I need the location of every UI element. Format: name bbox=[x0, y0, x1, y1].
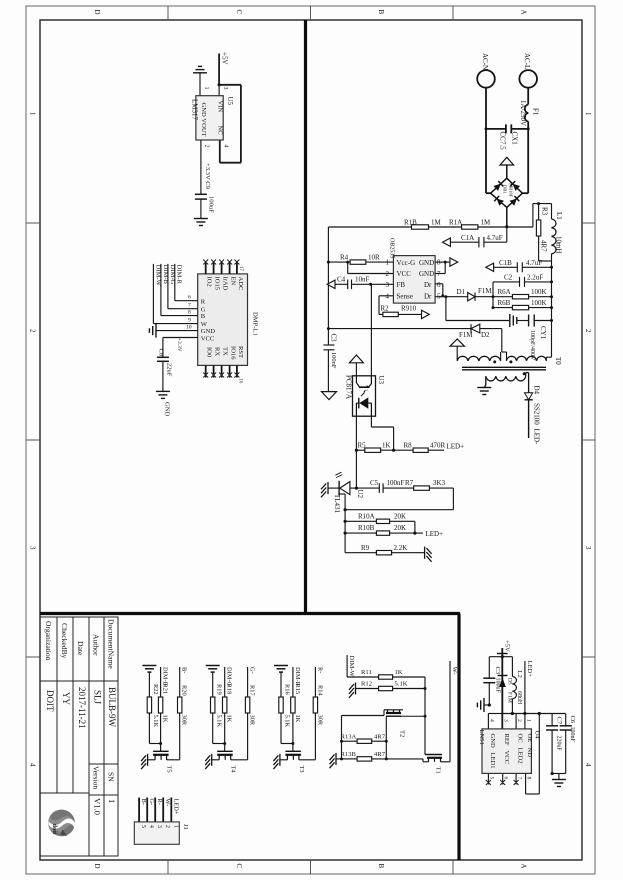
svg-text:U4: U4 bbox=[534, 731, 541, 740]
svg-text:TX: TX bbox=[222, 347, 229, 356]
svg-text:68uH: 68uH bbox=[516, 691, 522, 705]
svg-text:Version: Version bbox=[92, 766, 101, 789]
svg-text:4: 4 bbox=[488, 719, 494, 722]
svg-text:R10A: R10A bbox=[358, 512, 375, 520]
svg-text:4R7: 4R7 bbox=[374, 751, 386, 758]
svg-text:100K: 100K bbox=[531, 299, 547, 307]
svg-text:IO2: IO2 bbox=[206, 277, 213, 287]
svg-text:C3: C3 bbox=[494, 667, 501, 675]
svg-text:F1M: F1M bbox=[506, 692, 512, 703]
svg-text:W: W bbox=[201, 321, 208, 328]
svg-text:2: 2 bbox=[584, 329, 592, 333]
svg-text:4: 4 bbox=[386, 292, 390, 300]
svg-text:+5V: +5V bbox=[504, 640, 511, 652]
svg-text:LED+: LED+ bbox=[526, 661, 533, 678]
svg-text:R16: R16 bbox=[284, 684, 291, 695]
svg-text:Organization: Organization bbox=[44, 621, 53, 661]
svg-text:T1: T1 bbox=[434, 767, 441, 774]
svg-text:CY1: CY1 bbox=[539, 326, 547, 340]
svg-text:R18: R18 bbox=[226, 684, 233, 695]
svg-text:OE: OE bbox=[526, 734, 533, 743]
svg-text:D: D bbox=[93, 864, 101, 869]
svg-text:2.2uF: 2.2uF bbox=[527, 274, 543, 282]
svg-text:1: 1 bbox=[386, 259, 390, 267]
svg-text:3K3: 3K3 bbox=[433, 479, 446, 487]
svg-text:R22: R22 bbox=[152, 684, 159, 695]
svg-text:SN: SN bbox=[107, 772, 116, 782]
svg-text:GND VOUT: GND VOUT bbox=[200, 103, 207, 137]
svg-text:R21: R21 bbox=[162, 684, 169, 695]
svg-text:1K: 1K bbox=[226, 715, 233, 723]
svg-text:8: 8 bbox=[188, 310, 191, 316]
svg-text:B: B bbox=[201, 313, 206, 320]
svg-text:1: 1 bbox=[203, 87, 209, 90]
svg-text:Dr: Dr bbox=[424, 293, 432, 301]
svg-text:MB10F: MB10F bbox=[508, 183, 513, 198]
svg-text:LN51: LN51 bbox=[478, 730, 485, 745]
svg-text:GND: GND bbox=[419, 259, 434, 267]
svg-text:3: 3 bbox=[386, 281, 390, 289]
svg-text:5.1K: 5.1K bbox=[152, 715, 159, 728]
svg-text:VCC: VCC bbox=[201, 336, 215, 343]
svg-text:R9: R9 bbox=[361, 544, 370, 552]
svg-text:PC817A: PC817A bbox=[345, 375, 353, 399]
svg-text:1K: 1K bbox=[395, 669, 403, 676]
svg-text:SLJ: SLJ bbox=[93, 690, 103, 705]
svg-text:100nF: 100nF bbox=[387, 479, 405, 487]
svg-text:D4: D4 bbox=[532, 386, 540, 395]
svg-text:D2: D2 bbox=[481, 331, 490, 339]
svg-text:Date: Date bbox=[76, 641, 85, 656]
svg-text:GND: GND bbox=[489, 734, 496, 749]
svg-text:8: 8 bbox=[437, 259, 441, 267]
svg-text:2: 2 bbox=[204, 145, 210, 148]
svg-text:1A/250V: 1A/250V bbox=[519, 100, 527, 126]
svg-text:REF: REF bbox=[503, 734, 510, 746]
svg-text:Sense: Sense bbox=[397, 293, 413, 301]
svg-text:100uF: 100uF bbox=[494, 678, 500, 694]
svg-text:2.2K: 2.2K bbox=[394, 544, 408, 552]
svg-text:10R: 10R bbox=[368, 253, 380, 261]
svg-text:T3: T3 bbox=[298, 766, 305, 773]
svg-text:LED+: LED+ bbox=[426, 530, 444, 538]
svg-text:T5: T5 bbox=[166, 766, 173, 773]
svg-text:6: 6 bbox=[188, 295, 191, 301]
svg-text:2: 2 bbox=[29, 329, 37, 333]
svg-text:4R7: 4R7 bbox=[374, 733, 386, 740]
svg-text:C: C bbox=[235, 10, 243, 15]
svg-text:U2: U2 bbox=[356, 490, 364, 499]
svg-text:R14: R14 bbox=[316, 685, 323, 696]
svg-text:CX1: CX1 bbox=[510, 132, 518, 146]
svg-text:R20: R20 bbox=[181, 685, 188, 696]
svg-text:3: 3 bbox=[222, 87, 228, 90]
svg-text:8: 8 bbox=[526, 777, 532, 780]
svg-text:4: 4 bbox=[584, 763, 592, 767]
svg-text:OC: OC bbox=[517, 734, 524, 744]
svg-text:DIM-W: DIM-W bbox=[348, 656, 355, 678]
svg-text:doit: doit bbox=[51, 824, 58, 836]
svg-text:7: 7 bbox=[516, 777, 522, 780]
svg-text:4R7: 4R7 bbox=[540, 240, 548, 252]
svg-text:T4: T4 bbox=[230, 766, 237, 774]
svg-text:R2: R2 bbox=[381, 304, 390, 312]
svg-text:C: C bbox=[235, 864, 243, 869]
svg-text:4.7uF: 4.7uF bbox=[487, 234, 503, 242]
svg-text:TL431: TL431 bbox=[333, 494, 341, 514]
svg-text:RX: RX bbox=[214, 347, 221, 356]
svg-text:9: 9 bbox=[188, 318, 191, 324]
svg-text:1K: 1K bbox=[382, 441, 391, 449]
svg-text:5.1K: 5.1K bbox=[215, 715, 222, 728]
svg-text:1: 1 bbox=[172, 825, 178, 828]
svg-text:R15: R15 bbox=[294, 684, 301, 695]
svg-text:LM317: LM317 bbox=[190, 99, 198, 121]
svg-text:3: 3 bbox=[503, 719, 509, 722]
svg-text:U5: U5 bbox=[226, 97, 234, 106]
svg-text:FB: FB bbox=[397, 281, 406, 289]
svg-text:6: 6 bbox=[437, 281, 441, 289]
svg-text:470R: 470R bbox=[430, 441, 446, 449]
svg-text:6: 6 bbox=[503, 777, 509, 780]
svg-text:CheckedBy: CheckedBy bbox=[60, 623, 69, 659]
svg-text:LED+: LED+ bbox=[172, 799, 179, 815]
svg-text:1K: 1K bbox=[294, 715, 301, 723]
svg-text:1M: 1M bbox=[431, 219, 442, 227]
svg-text:DIM-W: DIM-W bbox=[154, 265, 161, 287]
svg-text:C1B: C1B bbox=[499, 259, 512, 267]
svg-text:1K: 1K bbox=[162, 715, 169, 723]
svg-text:C5: C5 bbox=[370, 479, 379, 487]
svg-text:1: 1 bbox=[107, 799, 117, 803]
svg-text:100nF: 100nF bbox=[330, 352, 337, 369]
svg-text:IO0: IO0 bbox=[206, 347, 213, 358]
svg-text:100K: 100K bbox=[531, 288, 547, 296]
svg-text:5: 5 bbox=[488, 777, 494, 780]
svg-text:+5V: +5V bbox=[221, 52, 229, 65]
svg-text:DIM-G: DIM-G bbox=[169, 265, 176, 285]
svg-text:5.1K: 5.1K bbox=[284, 715, 291, 728]
svg-text:C2: C2 bbox=[504, 274, 513, 282]
svg-text:R10B: R10B bbox=[358, 524, 375, 532]
svg-text:R-: R- bbox=[156, 799, 163, 805]
svg-text:AC-N: AC-N bbox=[481, 53, 489, 70]
svg-text:7: 7 bbox=[437, 270, 441, 278]
svg-text:NC: NC bbox=[216, 126, 223, 136]
svg-text:B-: B- bbox=[181, 667, 188, 673]
svg-text:R19: R19 bbox=[215, 684, 222, 695]
svg-text:J1: J1 bbox=[182, 824, 189, 830]
svg-text:DIM-B: DIM-B bbox=[162, 265, 169, 285]
svg-text:A: A bbox=[520, 10, 528, 15]
svg-text:7: 7 bbox=[188, 303, 191, 309]
svg-text:5.1K: 5.1K bbox=[395, 681, 408, 688]
svg-text:RST: RST bbox=[237, 346, 244, 358]
svg-text:1M: 1M bbox=[481, 219, 492, 227]
svg-text:2: 2 bbox=[386, 270, 390, 278]
svg-text:DOIT: DOIT bbox=[45, 690, 55, 712]
svg-text:DMP-L1: DMP-L1 bbox=[252, 312, 259, 336]
svg-text:B: B bbox=[377, 10, 385, 15]
svg-text:R1B: R1B bbox=[404, 219, 417, 227]
svg-text:R6B: R6B bbox=[498, 299, 511, 307]
svg-text:G-: G- bbox=[249, 667, 256, 674]
svg-text:C7: C7 bbox=[555, 717, 562, 725]
svg-text:4: 4 bbox=[148, 825, 154, 828]
svg-text:R3: R3 bbox=[541, 207, 549, 216]
svg-text:LED+: LED+ bbox=[447, 443, 465, 451]
svg-text:IO15: IO15 bbox=[214, 277, 221, 291]
svg-text:C6: C6 bbox=[569, 716, 576, 724]
svg-text:DB1: DB1 bbox=[503, 185, 508, 194]
svg-text:CC7.5: CC7.5 bbox=[499, 132, 507, 151]
svg-text:LED2: LED2 bbox=[517, 748, 524, 764]
svg-text:IO16: IO16 bbox=[230, 346, 237, 360]
svg-text:T2: T2 bbox=[399, 730, 406, 737]
svg-text:C1A: C1A bbox=[461, 234, 474, 242]
svg-text:30R: 30R bbox=[249, 715, 256, 726]
svg-text:3: 3 bbox=[156, 825, 162, 828]
svg-text:R1A: R1A bbox=[449, 219, 462, 227]
svg-text:1: 1 bbox=[584, 112, 592, 116]
svg-text:3: 3 bbox=[29, 546, 37, 550]
svg-text:C4: C4 bbox=[337, 276, 346, 284]
svg-text:SS2100: SS2100 bbox=[532, 403, 540, 425]
svg-text:30R: 30R bbox=[181, 715, 188, 726]
svg-text:2: 2 bbox=[516, 719, 522, 722]
svg-text:ADC: ADC bbox=[237, 277, 244, 292]
svg-text:DocumentName: DocumentName bbox=[107, 619, 116, 669]
svg-text:Author: Author bbox=[92, 634, 101, 656]
svg-text:D: D bbox=[93, 10, 101, 15]
svg-text:R11: R11 bbox=[361, 669, 372, 676]
svg-text:AC-L: AC-L bbox=[523, 53, 531, 69]
svg-text:4.7uF: 4.7uF bbox=[526, 259, 542, 267]
svg-text:16: 16 bbox=[238, 379, 243, 384]
svg-text:2017-11-21: 2017-11-21 bbox=[77, 687, 87, 729]
svg-text:Vcc-G: Vcc-G bbox=[397, 259, 416, 267]
svg-text:10nF: 10nF bbox=[355, 276, 370, 284]
svg-text:R-: R- bbox=[316, 667, 323, 673]
svg-text:BULB-9W: BULB-9W bbox=[107, 687, 117, 728]
svg-text:2: 2 bbox=[164, 825, 170, 828]
svg-text:R13B: R13B bbox=[341, 751, 357, 758]
svg-text:V1.0: V1.0 bbox=[92, 798, 102, 815]
svg-text:R910: R910 bbox=[401, 304, 417, 312]
svg-text:5: 5 bbox=[140, 825, 146, 828]
svg-text:10mH: 10mH bbox=[554, 236, 562, 254]
svg-text:1: 1 bbox=[29, 112, 37, 116]
svg-text:W-: W- bbox=[451, 667, 458, 675]
svg-text:D5: D5 bbox=[506, 678, 512, 685]
svg-text:4: 4 bbox=[29, 763, 37, 767]
svg-text:20K: 20K bbox=[394, 512, 406, 520]
svg-text:VCC: VCC bbox=[503, 751, 510, 765]
svg-text:B-: B- bbox=[140, 799, 147, 805]
svg-text:+3.3V: +3.3V bbox=[176, 338, 182, 352]
svg-text:+3.3V C9: +3.3V C9 bbox=[204, 163, 211, 190]
svg-text:3: 3 bbox=[584, 546, 592, 550]
svg-text:VCC: VCC bbox=[397, 270, 412, 278]
svg-text:G-: G- bbox=[148, 799, 155, 806]
svg-text:C8: C8 bbox=[157, 349, 164, 357]
svg-text:1: 1 bbox=[526, 719, 532, 722]
svg-text:100uF: 100uF bbox=[208, 196, 215, 213]
svg-text:10: 10 bbox=[186, 325, 192, 331]
svg-text:R17: R17 bbox=[249, 685, 256, 696]
svg-text:LED-: LED- bbox=[532, 429, 540, 446]
svg-text:C3: C3 bbox=[330, 334, 338, 343]
svg-text:30R: 30R bbox=[316, 715, 323, 726]
svg-text:F1: F1 bbox=[532, 108, 540, 116]
svg-text:220uF: 220uF bbox=[555, 736, 561, 752]
svg-text:OB2535: OB2535 bbox=[389, 238, 395, 258]
svg-text:R: R bbox=[201, 298, 206, 305]
svg-text:LED1: LED1 bbox=[489, 753, 496, 769]
svg-text:T0: T0 bbox=[554, 357, 562, 365]
svg-text:EN: EN bbox=[230, 277, 237, 286]
svg-text:R6A: R6A bbox=[498, 288, 511, 296]
svg-text:R7: R7 bbox=[405, 479, 414, 487]
svg-text:GND: GND bbox=[163, 402, 170, 417]
svg-text:YY: YY bbox=[61, 692, 71, 705]
svg-text:ND: ND bbox=[526, 748, 533, 758]
svg-text:F1M: F1M bbox=[478, 287, 492, 295]
svg-text:100nF: 100nF bbox=[569, 727, 575, 743]
svg-text:B: B bbox=[377, 864, 385, 869]
svg-text:R12: R12 bbox=[361, 681, 372, 688]
svg-text:22uF: 22uF bbox=[165, 363, 172, 377]
svg-text:F1M: F1M bbox=[459, 331, 473, 339]
svg-text:GND: GND bbox=[419, 270, 434, 278]
svg-text:R13A: R13A bbox=[341, 733, 357, 740]
svg-text:R4: R4 bbox=[340, 253, 349, 261]
svg-text:W-: W- bbox=[164, 799, 171, 807]
svg-text:A: A bbox=[520, 864, 528, 869]
svg-text:VIN: VIN bbox=[216, 101, 223, 113]
svg-text:L2: L2 bbox=[516, 671, 523, 678]
svg-text:L1: L1 bbox=[555, 212, 563, 220]
svg-text:D1: D1 bbox=[457, 288, 466, 296]
svg-text:4: 4 bbox=[222, 145, 228, 148]
svg-text:R5: R5 bbox=[358, 441, 367, 449]
svg-text:GND: GND bbox=[201, 328, 216, 335]
svg-text:Dr: Dr bbox=[424, 281, 432, 289]
svg-text:IrAD: IrAD bbox=[222, 277, 229, 291]
svg-text:5: 5 bbox=[437, 292, 441, 300]
svg-text:17: 17 bbox=[238, 266, 243, 271]
svg-text:R8: R8 bbox=[404, 441, 413, 449]
svg-text:20K: 20K bbox=[394, 524, 406, 532]
svg-text:U3: U3 bbox=[377, 376, 385, 385]
